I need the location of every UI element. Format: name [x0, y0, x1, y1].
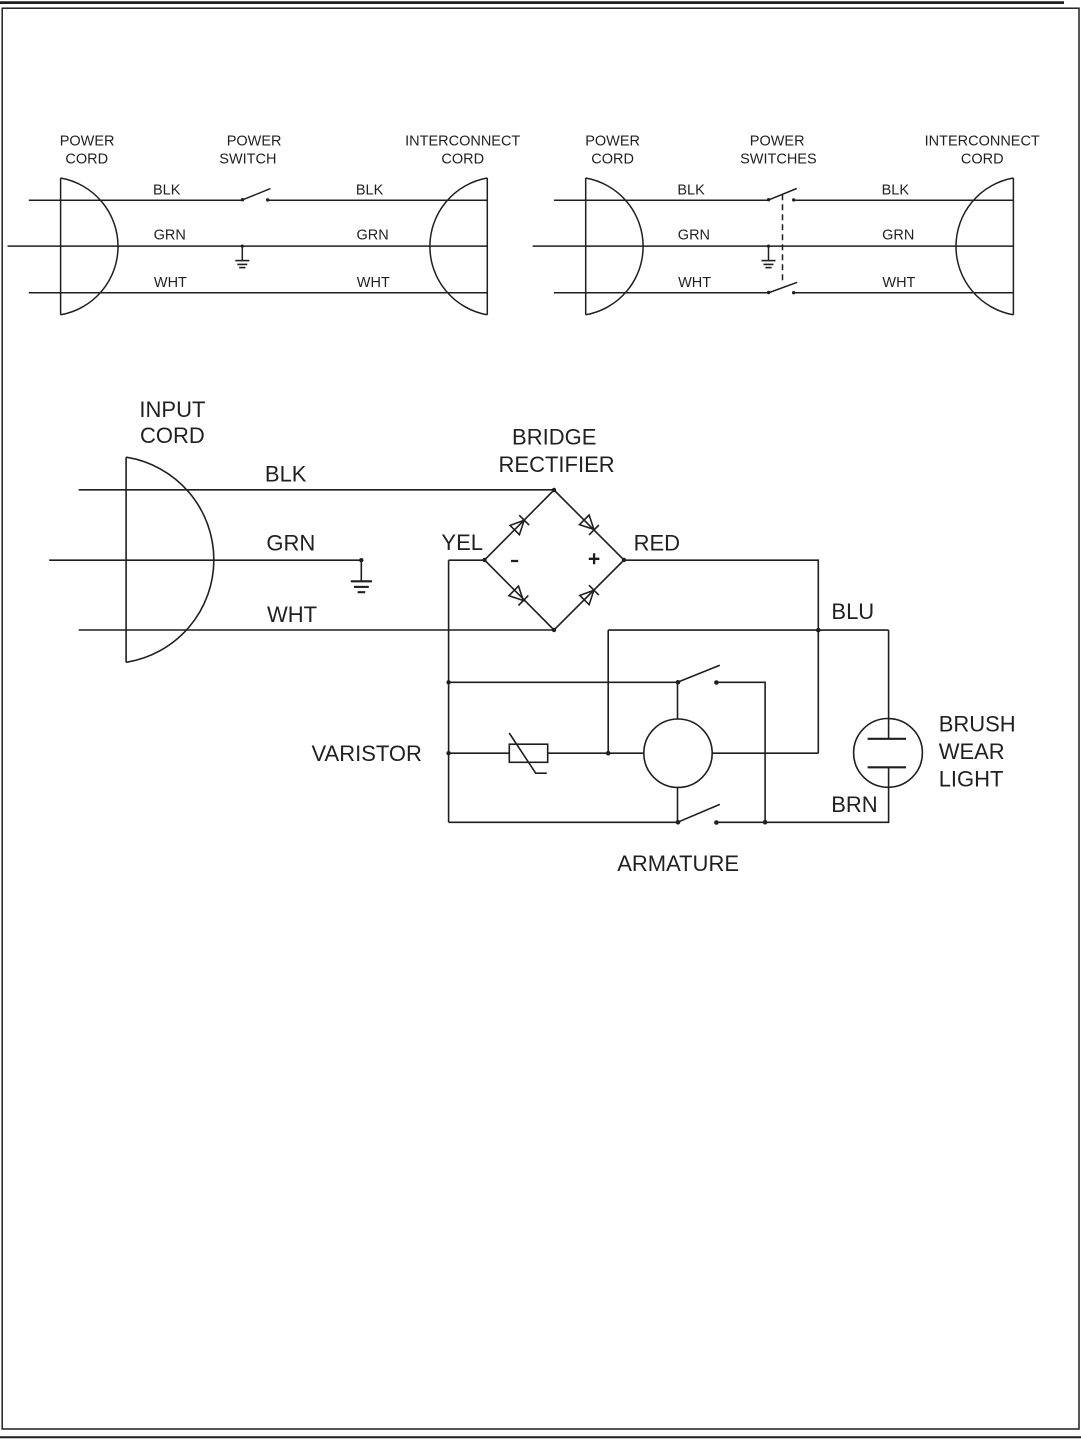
svg-text:RECTIFIER: RECTIFIER [499, 452, 615, 477]
svg-text:POWER: POWER [227, 134, 282, 150]
svg-text:BLU: BLU [831, 599, 874, 624]
svg-text:SWITCHES: SWITCHES [740, 152, 817, 168]
svg-text:BRUSH: BRUSH [939, 711, 1016, 736]
svg-text:WHT: WHT [678, 275, 711, 291]
svg-text:POWER: POWER [750, 134, 805, 150]
svg-text:CORD: CORD [961, 151, 1004, 167]
svg-text:WHT: WHT [154, 275, 187, 291]
svg-text:BLK: BLK [677, 182, 705, 198]
svg-text:INTERCONNECT: INTERCONNECT [405, 134, 520, 150]
svg-text:BLK: BLK [153, 182, 181, 198]
svg-text:GRN: GRN [882, 227, 914, 243]
svg-text:WHT: WHT [267, 602, 317, 627]
svg-text:WHT: WHT [882, 275, 915, 291]
svg-text:YEL: YEL [441, 530, 483, 555]
svg-text:WEAR: WEAR [939, 739, 1005, 764]
svg-text:VARISTOR: VARISTOR [312, 741, 422, 766]
svg-text:GRN: GRN [678, 227, 710, 243]
svg-text:GRN: GRN [266, 530, 315, 555]
svg-text:SWITCH: SWITCH [219, 152, 276, 168]
svg-text:ARMATURE: ARMATURE [617, 851, 739, 876]
svg-text:CORD: CORD [591, 151, 634, 167]
svg-text:BRN: BRN [831, 792, 877, 817]
svg-text:BLK: BLK [356, 182, 384, 198]
svg-text:WHT: WHT [357, 275, 390, 291]
svg-text:POWER: POWER [585, 134, 640, 150]
svg-text:CORD: CORD [140, 423, 205, 448]
svg-text:BRIDGE: BRIDGE [512, 424, 596, 449]
svg-text:CORD: CORD [65, 152, 108, 168]
svg-text:POWER: POWER [60, 134, 115, 150]
svg-text:CORD: CORD [441, 151, 484, 167]
svg-text:GRN: GRN [154, 227, 186, 243]
svg-text:BLK: BLK [265, 461, 307, 486]
svg-text:RED: RED [634, 530, 680, 555]
svg-text:BLK: BLK [882, 182, 910, 198]
svg-text:INPUT: INPUT [139, 397, 205, 422]
svg-text:LIGHT: LIGHT [939, 766, 1004, 791]
svg-text:GRN: GRN [357, 227, 389, 243]
svg-text:INTERCONNECT: INTERCONNECT [925, 134, 1040, 150]
